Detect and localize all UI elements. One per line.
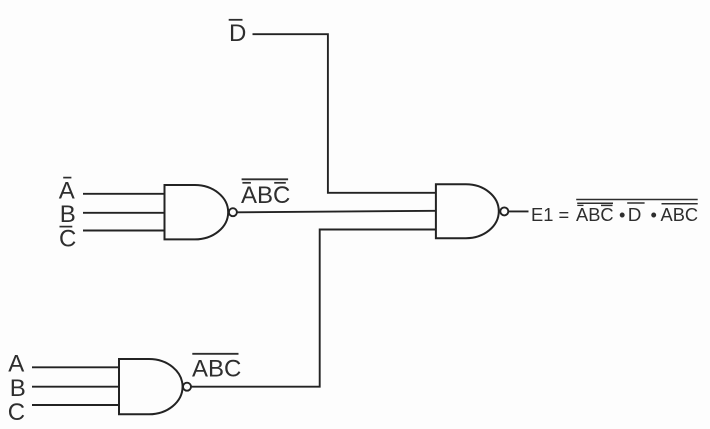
svg-text:C: C — [59, 225, 76, 252]
wire U2 output: right then up then right to U3 bottom input — [191, 230, 436, 387]
NAND gate U1 — [165, 185, 237, 239]
wire U1 input Cbar — [83, 230, 165, 232]
label B input of U1 — [60, 201, 76, 228]
svg-text:D: D — [229, 20, 246, 47]
label Dbar input — [229, 20, 247, 47]
svg-text:ABC: ABC — [192, 355, 241, 382]
svg-text:A: A — [8, 351, 24, 378]
label ABCbar output of U1 — [241, 179, 290, 209]
wire U2 input A — [32, 366, 119, 368]
NAND gate U2 — [119, 359, 191, 414]
wire U3 output — [509, 210, 529, 212]
wire U1 input Abar — [83, 193, 165, 195]
wire Dbar net: right then down then right to U3 top input — [253, 34, 436, 193]
NAND gate U3 — [436, 184, 508, 238]
wire U1 input B — [83, 212, 165, 214]
wire U2 input C — [32, 404, 119, 406]
label Cbar input of U1 — [59, 225, 76, 252]
wire U1 output to U3 middle input — [237, 211, 436, 213]
label Abar input of U1 — [59, 177, 75, 204]
svg-text:C: C — [8, 399, 25, 426]
svg-text:B: B — [60, 201, 76, 228]
label ABCbar output of U2 — [192, 354, 241, 383]
label E1 output expression — [531, 200, 698, 225]
wire U2 input B — [32, 386, 119, 388]
svg-text:ABC: ABC — [241, 182, 290, 209]
